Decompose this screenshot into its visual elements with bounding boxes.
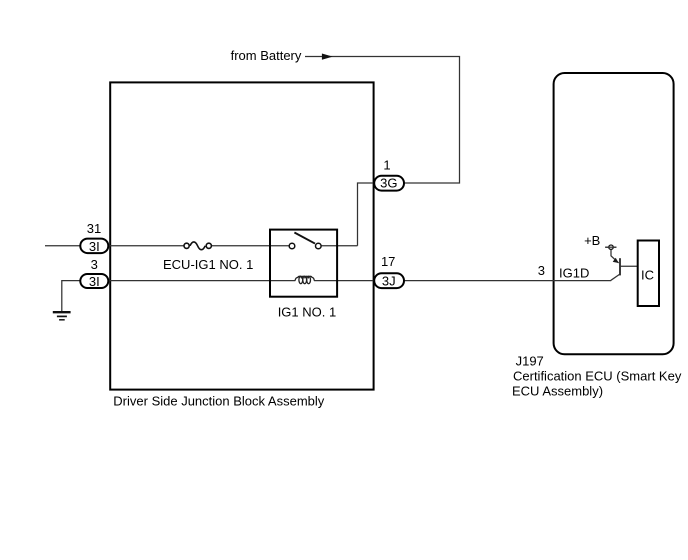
svg-text:3: 3: [538, 263, 545, 278]
svg-text:+B: +B: [584, 233, 600, 248]
svg-text:J197: J197: [516, 354, 544, 369]
svg-text:3I: 3I: [89, 274, 100, 289]
svg-text:31: 31: [87, 221, 101, 236]
svg-text:IG1 NO. 1: IG1 NO. 1: [278, 305, 337, 320]
svg-text:ECU-IG1 NO. 1: ECU-IG1 NO. 1: [163, 257, 253, 272]
svg-text:17: 17: [381, 254, 395, 269]
svg-text:3J: 3J: [382, 274, 396, 289]
svg-text:IC: IC: [641, 268, 654, 283]
svg-text:ECU Assembly): ECU Assembly): [512, 384, 603, 399]
svg-text:IG1D: IG1D: [559, 266, 589, 281]
svg-text:3I: 3I: [89, 239, 100, 254]
svg-text:Driver Side Junction Block Ass: Driver Side Junction Block Assembly: [113, 394, 324, 409]
svg-text:from Battery: from Battery: [231, 48, 302, 63]
svg-text:1: 1: [383, 158, 390, 173]
svg-text:3: 3: [91, 257, 98, 272]
svg-text:Certification ECU (Smart Key: Certification ECU (Smart Key: [513, 369, 682, 384]
svg-text:3G: 3G: [380, 176, 397, 191]
